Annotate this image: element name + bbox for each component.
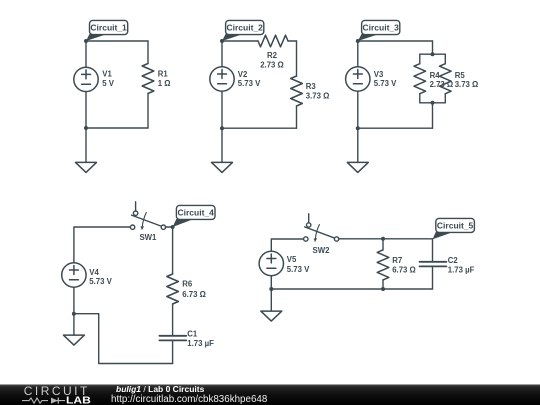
- wire R6 to C1: [172, 304, 174, 335]
- svg-text:5.73 V: 5.73 V: [89, 277, 112, 286]
- wire R4 top lead: [419, 54, 421, 64]
- wire bottom C5: [271, 288, 432, 290]
- wire bottom C3: [358, 127, 433, 129]
- voltage source V1: [74, 67, 98, 91]
- node C2 bottom: [220, 126, 224, 130]
- node C5 ground: [269, 287, 273, 291]
- svg-text:2.73 Ω: 2.73 Ω: [260, 61, 284, 70]
- flag Circuit_3: [358, 34, 378, 41]
- svg-text:6.73 Ω: 6.73 Ω: [182, 290, 206, 299]
- wire ground stub C3: [357, 128, 359, 162]
- resistor R3: [291, 76, 303, 106]
- capacitor C1: [159, 336, 186, 341]
- voltage source V5: [259, 251, 283, 275]
- svg-text:R7: R7: [392, 256, 402, 265]
- svg-text:R4: R4: [430, 71, 441, 80]
- wire R2 to corner: [288, 40, 297, 42]
- flag Circuit_2: [222, 34, 242, 41]
- node C3 bottom: [356, 126, 360, 130]
- svg-text:V1: V1: [102, 70, 112, 79]
- wire V5 top to SW2: [271, 239, 303, 251]
- voltage source V3: [346, 67, 370, 91]
- wire C2 bottom lead: [432, 267, 434, 289]
- switch SW1 lever: [132, 215, 162, 226]
- resistor R4: [414, 64, 426, 94]
- wire V1 top lead: [85, 41, 87, 67]
- svg-text:Circuit_5: Circuit_5: [437, 220, 474, 230]
- wire ground stub C5: [270, 289, 272, 311]
- svg-text:C1: C1: [187, 330, 198, 339]
- svg-text:R2: R2: [267, 51, 278, 60]
- logo diode: [51, 398, 58, 404]
- resistor R1: [142, 64, 154, 94]
- wire C2 top lead: [432, 239, 434, 261]
- ground C4: [63, 335, 84, 345]
- switch SW2 terminals: [304, 237, 308, 241]
- voltage source V4: [62, 263, 86, 287]
- wire top C1: node to R1: [86, 40, 148, 42]
- svg-text:5.73 V: 5.73 V: [374, 79, 397, 88]
- wire SW2 right to C2 corner: [338, 238, 432, 240]
- wire V5 bottom lead: [270, 276, 272, 289]
- voltage source V2: [210, 67, 234, 91]
- switch SW1 terminals: [130, 225, 134, 229]
- wire V2 bottom lead: [221, 91, 223, 128]
- svg-text:http://circuitlab.com/cbk836kh: http://circuitlab.com/cbk836khpe648: [111, 394, 268, 405]
- resistor R7: [377, 250, 389, 280]
- svg-text:5.73 V: 5.73 V: [238, 79, 261, 88]
- svg-text:V5: V5: [287, 255, 297, 264]
- svg-text:R5: R5: [455, 71, 466, 80]
- wire ground stub C2: [221, 128, 223, 162]
- flag Circuit_1: [86, 34, 106, 41]
- svg-text:5 V: 5 V: [102, 79, 115, 88]
- svg-text:Circuit_2: Circuit_2: [227, 23, 264, 33]
- switch SW1 arrow: [142, 213, 146, 227]
- node C5 R7 bottom: [381, 287, 385, 291]
- wire R5 top lead: [444, 54, 446, 64]
- resistor R5: [440, 64, 452, 94]
- svg-text:bulig1 / Lab 0 Circuits: bulig1 / Lab 0 Circuits: [116, 384, 205, 394]
- ground C3: [347, 162, 368, 172]
- wire ground stub C1: [85, 128, 87, 162]
- svg-text:R3: R3: [306, 82, 317, 91]
- wire R4 bottom lead: [419, 94, 421, 103]
- svg-text:V2: V2: [238, 70, 248, 79]
- svg-text:1 Ω: 1 Ω: [158, 79, 171, 88]
- node C4 ground: [72, 312, 76, 316]
- wire C1 bottom lead: [172, 341, 174, 363]
- wire right C1 lower: [147, 94, 149, 129]
- wire top C2: node to R2: [222, 40, 258, 42]
- capacitor C2: [420, 262, 447, 267]
- node C2 top: [220, 39, 224, 43]
- wire right C2 lower: [296, 106, 298, 128]
- node C1 bottom: [84, 126, 88, 130]
- wire SW1 left to V4: [74, 227, 131, 263]
- wire V1 bottom lead: [85, 92, 87, 128]
- wire R7 top lead: [382, 239, 384, 250]
- wire bottom return C4: [74, 314, 173, 364]
- wire parallel bottom bar: [420, 102, 446, 104]
- svg-text:V4: V4: [89, 268, 99, 277]
- wire R5 bottom lead: [444, 94, 446, 103]
- svg-text:Circuit_3: Circuit_3: [363, 23, 400, 33]
- wire V4 bottom lead: [73, 287, 75, 314]
- wire right C2 upper: [296, 41, 298, 76]
- resistor R2: [258, 35, 288, 47]
- wire top C3: [358, 40, 433, 42]
- svg-text:R1: R1: [158, 70, 169, 79]
- svg-text:V3: V3: [374, 70, 384, 79]
- wire ground stub C4: [73, 314, 75, 335]
- switch SW1 top stub: [135, 202, 137, 211]
- flag Circuit_4: [173, 219, 193, 227]
- node C1 top: [84, 39, 88, 43]
- node C3 top: [356, 39, 360, 43]
- wire V3 top lead: [357, 41, 359, 67]
- wire V3 bottom lead: [357, 91, 359, 128]
- svg-text:Circuit_4: Circuit_4: [178, 207, 215, 217]
- svg-text:LAB: LAB: [66, 395, 91, 405]
- node C3 parallel top: [431, 52, 435, 56]
- svg-text:1.73 µF: 1.73 µF: [187, 339, 214, 348]
- ground C1: [76, 162, 97, 172]
- flag Circuit_5: [433, 232, 453, 239]
- svg-text:C2: C2: [448, 256, 459, 265]
- svg-text:5.73 V: 5.73 V: [287, 265, 310, 274]
- logo resistor squiggle: [22, 398, 65, 403]
- wire parallel top bar: [420, 53, 446, 55]
- svg-text:1.73 µF: 1.73 µF: [448, 265, 475, 274]
- wire parallel to bottom: [432, 103, 434, 128]
- wire C3 to parallel top: [432, 41, 434, 54]
- svg-text:R6: R6: [182, 280, 193, 289]
- svg-text:Circuit_1: Circuit_1: [90, 23, 127, 33]
- svg-text:3.73 Ω: 3.73 Ω: [306, 91, 330, 100]
- svg-text:3.73 Ω: 3.73 Ω: [455, 80, 479, 89]
- svg-text:6.73 Ω: 6.73 Ω: [392, 266, 416, 275]
- resistor R6: [167, 274, 179, 304]
- wire R7 bottom lead: [382, 280, 384, 289]
- wire bottom C2: [222, 127, 297, 129]
- ground C2: [212, 162, 233, 172]
- node C4 switch: [171, 225, 175, 229]
- svg-text:SW2: SW2: [313, 246, 331, 255]
- node C5 R7 top: [381, 237, 385, 241]
- switch SW2 lever: [305, 227, 335, 238]
- switch SW2 top stub: [308, 214, 310, 223]
- ground C5: [261, 311, 282, 321]
- wire right C1 upper: [147, 41, 149, 64]
- node C3 parallel bottom: [431, 101, 435, 105]
- svg-text:2.73 Ω: 2.73 Ω: [430, 80, 454, 89]
- wire bottom C1: [86, 127, 148, 129]
- wire V2 top lead: [221, 41, 223, 67]
- wire node to R6: [172, 227, 174, 274]
- wire SW1 right to node: [165, 226, 172, 228]
- switch SW2 arrow: [315, 225, 319, 239]
- svg-text:SW1: SW1: [139, 233, 157, 242]
